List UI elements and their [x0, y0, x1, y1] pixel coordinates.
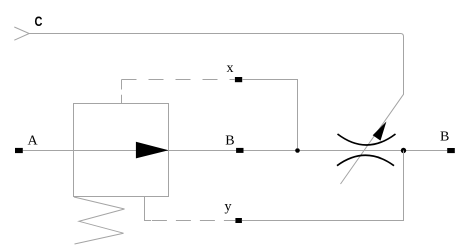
check valve triangle [136, 142, 169, 159]
pilot line C [29, 34, 403, 185]
port B square middle [236, 148, 243, 153]
port A square [15, 148, 23, 153]
port B square right [447, 148, 455, 153]
pilot line y dashed [152, 220, 236, 222]
main line A-B [23, 150, 447, 152]
throttle bottom arc [337, 155, 394, 165]
pilot port y square [235, 218, 242, 223]
svg-text:B: B [225, 134, 234, 149]
pilot port x square [235, 77, 242, 82]
spring [74, 197, 125, 244]
wire x to upstream junction [242, 80, 297, 149]
svg-text:B: B [440, 130, 449, 145]
junction dot downstream [401, 148, 406, 153]
pilot line y from box bottom [145, 197, 152, 221]
throttle control arrowhead [373, 122, 387, 141]
svg-text:y: y [225, 200, 232, 215]
pilot line x dashed horizontal [122, 79, 235, 81]
svg-text:x: x [227, 61, 234, 76]
pilot line C arrowhead [14, 27, 29, 40]
throttle top arc [338, 134, 396, 145]
valve box [74, 104, 169, 197]
svg-text:A: A [28, 134, 39, 149]
pilot line x dashed vertical [121, 80, 123, 104]
svg-text:C: C [35, 14, 43, 29]
wire y to downstream junction [242, 151, 404, 221]
junction dot upstream [295, 148, 300, 153]
